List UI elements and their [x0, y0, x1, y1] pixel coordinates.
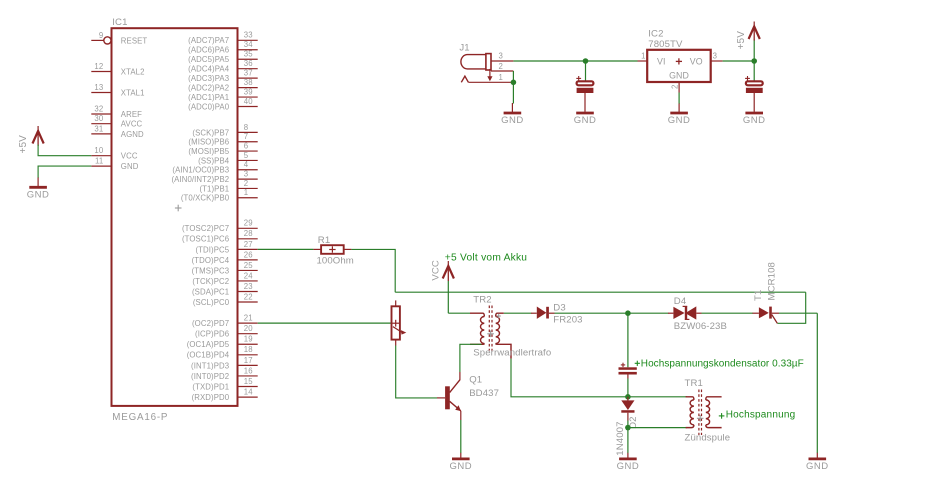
svg-text:(ADC1)PA1: (ADC1)PA1: [188, 93, 229, 102]
wire junction to D4: [628, 312, 669, 314]
IC1 pin 34 (ADC6)PA6: [188, 40, 258, 55]
svg-text:(INT0)PD2: (INT0)PD2: [191, 372, 229, 381]
wire potentiometer to Q1 base: [396, 346, 437, 398]
ground (left of IC1): [27, 178, 50, 201]
svg-text:18: 18: [244, 345, 253, 354]
svg-text:AVCC: AVCC: [121, 120, 143, 129]
wire TR2 secondary top to D3: [504, 312, 532, 314]
svg-text:VCC: VCC: [121, 152, 138, 161]
wire J1 pin3 to IC2 VI: [513, 60, 637, 62]
svg-text:(ADC4)PA4: (ADC4)PA4: [188, 65, 230, 74]
svg-text:39: 39: [244, 87, 253, 96]
svg-text:(SCL)PC0: (SCL)PC0: [193, 298, 230, 307]
ground (bottom right): [806, 453, 829, 472]
svg-text:(AIN1/OC0)PB3: (AIN1/OC0)PB3: [172, 166, 229, 175]
svg-text:1: 1: [498, 73, 502, 82]
J1 pin 3: [491, 60, 513, 62]
svg-text:13: 13: [94, 83, 103, 92]
supply +5V (top right): [736, 22, 760, 50]
junction HV lower node: [625, 394, 631, 400]
svg-text:26: 26: [244, 250, 253, 259]
svg-text:D4: D4: [674, 296, 687, 307]
wire TR2 primary bottom to Q1 collector: [460, 344, 482, 372]
svg-text:(T1)PB1: (T1)PB1: [199, 184, 229, 193]
IC1 pin 37 (ADC3)PA3: [188, 69, 258, 84]
svg-text:GND: GND: [501, 115, 524, 126]
svg-text:(TDI)PC5: (TDI)PC5: [195, 245, 229, 254]
svg-text:(RXD)PD0: (RXD)PD0: [192, 393, 230, 402]
svg-text:GND: GND: [27, 190, 50, 201]
IC1 pin 38 (ADC2)PA2: [188, 78, 258, 93]
svg-text:1: 1: [641, 52, 645, 61]
svg-text:6: 6: [244, 141, 248, 150]
junction D2/TR1 bottom: [625, 425, 631, 431]
svg-text:T1: T1: [753, 290, 764, 301]
wire TR2 secondary bottom to HV node: [511, 359, 628, 397]
J1 switch contact: [461, 76, 468, 82]
svg-text:+5 Volt vom Akku: +5 Volt vom Akku: [445, 252, 527, 263]
IC1 pin 19 (OC1A)PD5: [187, 335, 258, 350]
svg-text:(ADC6)PA6: (ADC6)PA6: [188, 46, 229, 55]
potentiometer R2 (trimmer): [392, 300, 407, 345]
IC1 pin 35 (ADC5)PA5: [188, 50, 258, 64]
svg-text:(TMS)PC3: (TMS)PC3: [192, 266, 230, 275]
svg-text:(T0/XCK)PB0: (T0/XCK)PB0: [181, 194, 230, 203]
svg-text:16: 16: [244, 366, 253, 375]
capacitor C1 (electrolytic): [576, 76, 593, 112]
junction at C1: [583, 58, 589, 64]
IC1 pin 7 (MISO)PB6: [188, 132, 257, 147]
svg-text:GND: GND: [668, 115, 691, 126]
svg-text:4: 4: [244, 160, 249, 169]
op-amp U? : microcontroller IC1 MEGA16-P: [112, 17, 238, 423]
diode D2 1N4007: [615, 397, 639, 456]
svg-text:XTAL1: XTAL1: [121, 88, 145, 97]
svg-text:+5V: +5V: [736, 31, 747, 50]
IC1 pin 23 (SDA)PC1: [192, 282, 258, 297]
wire node to TR1 primary top: [628, 396, 687, 398]
svg-text:Sperrwandlertrafo: Sperrwandlertrafo: [473, 348, 551, 359]
svg-text:GND: GND: [121, 162, 139, 171]
transformer TR1 Zuendspule: [685, 378, 731, 443]
svg-text:33: 33: [244, 31, 253, 40]
IC1 pin 24 (TCK)PC2: [192, 271, 257, 286]
wire node down to C2: [753, 61, 755, 81]
svg-text:XTAL2: XTAL2: [121, 67, 145, 76]
svg-text:(TDO)PC4: (TDO)PC4: [192, 256, 230, 265]
IC1 pin 33 (ADC7)PA7: [188, 31, 258, 46]
svg-text:20: 20: [244, 324, 253, 333]
wire C3 to HV lower node: [627, 379, 629, 397]
svg-text:(ADC3)PA3: (ADC3)PA3: [188, 74, 229, 83]
ground (below D2): [617, 453, 640, 472]
wire gate rail drop to thyristor gate: [777, 292, 805, 323]
IC1 pin 10 VCC: [91, 146, 138, 161]
IC1 pin 6 (MOSI)PB5: [188, 141, 257, 156]
svg-text:7: 7: [244, 132, 248, 141]
svg-text:FR203: FR203: [553, 314, 582, 325]
svg-text:(OC1A)PD5: (OC1A)PD5: [187, 340, 230, 349]
svg-text:15: 15: [244, 377, 253, 386]
svg-text:34: 34: [244, 40, 253, 49]
IC1 body: [112, 28, 238, 406]
svg-text:(ADC2)PA2: (ADC2)PA2: [188, 84, 229, 93]
transistor Q1 BD437: [437, 372, 499, 420]
wire junction to ground: [627, 428, 629, 453]
label Hochspannungskondensator: [635, 359, 804, 370]
wire J1 node to ground: [512, 82, 514, 103]
svg-text:32: 32: [94, 104, 103, 113]
svg-text:(ADC0)PA0: (ADC0)PA0: [188, 102, 230, 111]
IC1 pin 30 AVCC: [91, 114, 142, 129]
junction HV top: [625, 310, 631, 316]
svg-text:R1: R1: [318, 235, 330, 246]
svg-text:+5V: +5V: [18, 135, 29, 154]
svg-text:31: 31: [94, 124, 103, 133]
IC2 pin 1 VI: [638, 60, 648, 62]
label Hochspannung: [719, 410, 796, 421]
svg-text:24: 24: [244, 271, 253, 280]
wire D4 to thyristor T1: [702, 312, 754, 314]
IC1 pin 3 (AIN0/INT2)PB2: [171, 170, 257, 185]
svg-text:(ADC7)PA7: (ADC7)PA7: [188, 36, 229, 45]
svg-text:RESET: RESET: [121, 36, 148, 45]
svg-text:25: 25: [244, 261, 253, 270]
svg-text:21: 21: [244, 314, 253, 323]
svg-text:AREF: AREF: [121, 110, 142, 119]
IC1 pin 15 (TXD)PD1: [192, 377, 257, 392]
ground (below C1): [576, 112, 594, 115]
wire IC1 pin27 to R1: [258, 248, 314, 250]
IC1 pin 36 (ADC4)PA4: [188, 59, 258, 74]
svg-text:(INT1)PD3: (INT1)PD3: [191, 361, 229, 370]
IC1 pin 17 (INT1)PD3: [191, 356, 258, 371]
svg-text:9: 9: [99, 31, 103, 40]
thyristor T1 MCR108: [753, 262, 780, 323]
J1 pin 1: [468, 81, 513, 83]
svg-text:IC2: IC2: [648, 29, 663, 40]
svg-text:27: 27: [244, 240, 253, 249]
IC1 pin 32 AREF: [91, 104, 142, 119]
svg-text:38: 38: [244, 78, 253, 87]
wire D2 to lower junction: [627, 421, 629, 428]
wire +5V to IC1 VCC pin10: [38, 145, 91, 156]
wire junction down to C3: [627, 313, 629, 367]
IC1 pin 21 (OC2)PD7: [192, 314, 258, 329]
ground (below Q1): [449, 453, 472, 472]
svg-text:7805TV: 7805TV: [648, 39, 683, 50]
svg-text:22: 22: [244, 292, 253, 301]
svg-text:BD437: BD437: [469, 388, 499, 399]
svg-text:8: 8: [244, 123, 248, 132]
svg-text:AGND: AGND: [121, 130, 144, 139]
svg-text:3: 3: [498, 52, 502, 61]
IC1 pin 40 (ADC0)PA0: [188, 97, 258, 112]
supply +5V (left): [18, 126, 44, 154]
svg-text:(ADC5)PA5: (ADC5)PA5: [188, 55, 230, 64]
wire right ground rail down: [816, 313, 818, 453]
IC1 pin 12 XTAL2: [91, 62, 144, 77]
svg-text:(TCK)PC2: (TCK)PC2: [192, 277, 229, 286]
wire gate rail (long horizontal): [395, 291, 806, 293]
IC1 pin 2 (T1)PB1: [199, 179, 257, 194]
ground (below C2): [745, 112, 763, 115]
wire node up to +5V: [753, 40, 755, 62]
svg-text:2: 2: [244, 179, 248, 188]
svg-text:1: 1: [244, 188, 248, 197]
supply VCC (+5 Volt vom Akku): [430, 260, 454, 281]
J1 pin 2: [491, 70, 513, 72]
IC1 origin cross: [175, 207, 182, 209]
svg-text:(MOSI)PB5: (MOSI)PB5: [188, 147, 229, 156]
IC1 pin 13 XTAL1: [91, 83, 144, 98]
svg-text:(ICP)PD6: (ICP)PD6: [195, 330, 229, 339]
IC1 pin 4 (AIN1/OC0)PB3: [172, 160, 257, 175]
svg-text:MEGA16-P: MEGA16-P: [112, 412, 168, 423]
IC1 pin 25 (TMS)PC3: [192, 261, 258, 276]
svg-text:11: 11: [95, 157, 103, 166]
svg-text:MCR108: MCR108: [767, 262, 778, 300]
svg-text:GND: GND: [449, 461, 472, 472]
svg-text:VO: VO: [690, 56, 703, 66]
svg-text:2: 2: [498, 62, 502, 71]
svg-text:(MISO)PB6: (MISO)PB6: [188, 138, 229, 147]
svg-text:(AIN0/INT2)PB2: (AIN0/INT2)PB2: [171, 175, 229, 184]
svg-text:37: 37: [244, 69, 253, 78]
svg-text:1N4007: 1N4007: [615, 421, 626, 455]
svg-text:(OC2)PD7: (OC2)PD7: [192, 319, 229, 328]
svg-text:Hochspannung: Hochspannung: [726, 410, 796, 421]
svg-text:Hochspannungskondensator 0.33µ: Hochspannungskondensator 0.33µF: [641, 359, 804, 370]
svg-text:23: 23: [244, 282, 253, 291]
svg-text:(OC1B)PD4: (OC1B)PD4: [187, 351, 230, 360]
svg-text:5: 5: [244, 151, 249, 160]
IC1 pin 22 (SCL)PC0: [193, 292, 258, 307]
svg-text:VCC: VCC: [430, 260, 441, 281]
svg-text:(SCK)PB7: (SCK)PB7: [192, 128, 229, 137]
IC1 pin 20 (ICP)PD6: [195, 324, 258, 339]
svg-text:17: 17: [244, 356, 253, 365]
wire junction down to C1: [585, 61, 587, 81]
wire T1 cathode to right ground rail: [779, 312, 817, 314]
svg-text:14: 14: [244, 387, 253, 396]
capacitor C2 (electrolytic): [745, 76, 763, 112]
svg-text:3: 3: [713, 52, 717, 61]
wire IC2 VO to +5V node: [723, 60, 755, 62]
svg-text:10: 10: [94, 146, 103, 155]
IC1 pin 5 (SS)PB4: [198, 151, 258, 166]
svg-text:GND: GND: [617, 461, 640, 472]
IC1 pin 1 (T0/XCK)PB0: [181, 188, 258, 203]
IC1 pin 39 (ADC1)PA1: [188, 87, 258, 102]
IC1 pin 14 (RXD)PD0: [192, 387, 258, 402]
svg-text:35: 35: [244, 50, 253, 59]
wire IC1 GND pin11 to ground: [38, 166, 91, 178]
diode D4 BZW06-23B (transil): [668, 296, 727, 332]
svg-text:Zündspule: Zündspule: [685, 432, 731, 443]
svg-text:(SDA)PC1: (SDA)PC1: [192, 287, 229, 296]
svg-text:2: 2: [671, 85, 680, 89]
connector J1 (power jack): [459, 42, 513, 82]
transformer TR2 Sperrwandlertrafo: [470, 295, 551, 359]
wire Q1 emitter to ground: [460, 420, 462, 453]
svg-text:(TOSC1)PC6: (TOSC1)PC6: [182, 235, 229, 244]
IC1 pin 29 (TOSC2)PC7: [182, 219, 258, 234]
IC1 pin 28 (TOSC1)PC6: [182, 229, 258, 244]
svg-text:GND: GND: [669, 71, 689, 81]
svg-text:VI: VI: [657, 56, 666, 66]
svg-text:12: 12: [94, 62, 103, 71]
svg-text:IC1: IC1: [112, 17, 127, 28]
svg-text:GND: GND: [743, 115, 766, 126]
IC2 pin 3 VO: [711, 60, 723, 62]
junction at +5V node: [751, 58, 757, 64]
wire D3 to HV junction: [555, 312, 628, 314]
svg-text:(TXD)PD1: (TXD)PD1: [192, 382, 229, 391]
wire junction to TR1 primary bottom: [628, 427, 687, 429]
svg-text:100Ohm: 100Ohm: [317, 255, 354, 266]
svg-text:(SS)PB4: (SS)PB4: [198, 156, 230, 165]
IC1 pin 9 RESET: [91, 31, 147, 46]
diode D3 FR203: [531, 303, 583, 326]
IC2 pin 2 GND: [678, 82, 680, 93]
svg-text:J1: J1: [459, 42, 469, 53]
IC1 pin 16 (INT0)PD2: [191, 366, 258, 381]
svg-text:GND: GND: [806, 461, 829, 472]
ground (below IC2): [668, 104, 691, 127]
IC1 pin 31 AGND: [91, 124, 144, 139]
wire J1 pin2 down to pin1 node: [512, 71, 514, 82]
svg-text:Q1: Q1: [469, 374, 482, 385]
capacitor C3 0.33uF (HV): [619, 363, 637, 379]
svg-text:TR2: TR2: [473, 295, 491, 306]
IC1 pin 26 (TDO)PC4: [192, 250, 258, 265]
svg-text:(TOSC2)PC7: (TOSC2)PC7: [182, 224, 229, 233]
IC1 pin 11 GND: [91, 157, 138, 172]
wire VCC down across rail to TR2: [447, 281, 449, 313]
junction at J1: [511, 80, 517, 86]
svg-text:19: 19: [244, 335, 253, 344]
svg-text:40: 40: [244, 97, 253, 106]
svg-text:29: 29: [244, 219, 253, 228]
svg-text:3: 3: [244, 170, 248, 179]
svg-text:BZW06-23B: BZW06-23B: [674, 321, 727, 332]
svg-text:28: 28: [244, 229, 253, 238]
wire R1 to gate rail: [351, 249, 395, 292]
wire IC2 GND pin to ground: [678, 93, 680, 105]
IC1 pin 18 (OC1B)PD4: [187, 345, 258, 360]
regulator IC2 7805TV: [638, 29, 723, 93]
ground (below J1): [501, 103, 524, 126]
svg-text:30: 30: [94, 114, 103, 123]
svg-text:TR1: TR1: [685, 378, 703, 389]
J1 center-pin contact arrow: [489, 69, 491, 77]
IC1 pin 8 (SCK)PB7: [192, 123, 257, 138]
wire IC1 pin21 to potentiometer wiper: [258, 322, 392, 324]
IC1 pin 27 (TDI)PC5: [195, 240, 257, 255]
svg-text:D3: D3: [553, 303, 565, 314]
svg-text:36: 36: [244, 59, 253, 68]
svg-text:GND: GND: [574, 115, 597, 126]
resistor R1 100Ohm: [313, 235, 354, 266]
